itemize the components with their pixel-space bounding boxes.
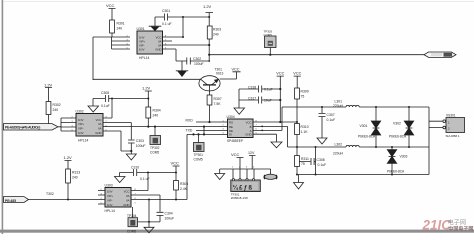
wire U301 right pins: [163, 37, 210, 49]
wire U304 VCC row: [253, 121, 297, 123]
wire top output run: [209, 54, 424, 56]
svg-text:240: 240: [117, 27, 123, 31]
svg-text:2.4K: 2.4K: [180, 187, 188, 191]
TVS diode V302: [389, 106, 414, 148]
op-amp U303: [105, 184, 132, 214]
svg-text:240: 240: [153, 114, 159, 118]
svg-text:1.2V: 1.2V: [142, 86, 151, 91]
svg-text:75: 75: [301, 162, 305, 166]
wire TXD to U304: [196, 130, 227, 132]
svg-text:VCC: VCC: [106, 3, 115, 8]
svg-text:P6KE6-8CA: P6KE6-8CA: [358, 135, 376, 139]
svg-text:TXD: TXD: [186, 129, 193, 133]
connector XS301: [443, 114, 465, 139]
svg-text:VCC: VCC: [276, 72, 284, 76]
svg-text:HPL14: HPL14: [78, 139, 88, 143]
svg-text:VA: VA: [126, 198, 130, 202]
svg-text:COM5: COM5: [127, 230, 136, 234]
svg-text:RXD: RXD: [186, 119, 194, 123]
svg-text:U302: U302: [76, 110, 84, 114]
svg-text:VA: VA: [126, 194, 130, 198]
svg-text:4: 4: [253, 167, 255, 169]
resistor R313: [66, 169, 81, 201]
svg-text:SIA,DB8.1: SIA,DB8.1: [446, 134, 460, 138]
svg-text:C310: C310: [131, 166, 139, 170]
svg-text:7.5K: 7.5K: [214, 102, 222, 106]
power 12V module: [248, 151, 256, 169]
capacitor C302: [187, 57, 210, 66]
capacitor C305 decoupling: [93, 91, 148, 108]
TVS diode V303: [387, 146, 408, 176]
svg-text:100uF: 100uF: [165, 217, 175, 221]
svg-text:R309: R309: [301, 90, 309, 94]
wire to connector XS301: [429, 107, 443, 175]
svg-text:1.2V: 1.2V: [64, 155, 73, 160]
resistor R303: [207, 16, 221, 61]
svg-text:T302: T302: [46, 192, 54, 196]
svg-text:C302: C302: [193, 57, 201, 61]
svg-text:COM5: COM5: [150, 151, 159, 155]
svg-text:10uF: 10uF: [264, 98, 272, 102]
capacitor C308: [299, 158, 326, 167]
svg-text:12V: 12V: [248, 151, 255, 155]
filter module TF301: [231, 179, 260, 200]
ground arrow C303: [126, 154, 136, 160]
svg-text:240: 240: [213, 33, 219, 37]
transistor T301: [199, 68, 237, 96]
power VCC bottom: [171, 161, 180, 174]
svg-text:P6KE6-8CA: P6KE6-8CA: [389, 135, 407, 139]
svg-text:100uF: 100uF: [194, 62, 204, 66]
svg-text:1NV: 1NV: [139, 48, 145, 52]
ferrite bead E301: [264, 174, 276, 179]
capacitor C307 on line A: [319, 106, 336, 138]
svg-text:L302: L302: [335, 143, 343, 147]
svg-text:2KB618-1/W: 2KB618-1/W: [231, 196, 248, 200]
svg-text:XS301: XS301: [446, 114, 456, 118]
wire U304 A row: [253, 107, 282, 130]
svg-text:VCC: VCC: [124, 189, 130, 193]
svg-text:TP301: TP301: [194, 153, 204, 157]
svg-text:240: 240: [72, 176, 78, 180]
svg-text:VCC: VCC: [171, 161, 180, 166]
svg-text:75: 75: [301, 95, 305, 99]
wire VA row to C304: [131, 195, 160, 212]
svg-text:U303: U303: [105, 184, 113, 188]
bottom rail wire: [297, 174, 429, 176]
wire RXD to U304: [196, 121, 227, 123]
svg-text:220uH: 220uH: [333, 152, 344, 156]
wire U304 B row: [253, 126, 288, 147]
svg-text:R302: R302: [53, 103, 61, 107]
svg-text:VCC: VCC: [293, 72, 301, 76]
border bottom grey bar: [0, 230, 474, 233]
capacitor C303: [128, 139, 145, 151]
svg-text:0.1uF: 0.1uF: [327, 118, 336, 122]
resistor R311: [295, 156, 309, 176]
svg-text:V301: V301: [360, 124, 368, 128]
wire module to bead: [254, 169, 271, 174]
svg-text:C308: C308: [317, 158, 325, 162]
svg-text:C307: C307: [327, 113, 335, 117]
port RXD out (top right): [424, 52, 456, 57]
wire U302 left pin bus: [58, 118, 76, 131]
wire U302 GND to C303 foot: [103, 131, 131, 154]
svg-text:R305: R305: [180, 182, 188, 186]
svg-text:3: 3: [246, 167, 248, 169]
ground arrow C307: [317, 138, 327, 144]
wire ground run bottom: [137, 200, 160, 222]
wire U301 left pin bus: [112, 37, 130, 49]
wire feedback loop to transistor base: [93, 37, 201, 80]
svg-text:0.1uF: 0.1uF: [101, 104, 110, 108]
resistor R310: [295, 124, 309, 156]
testpoint TP303: [264, 30, 277, 56]
pin number ticks: [72, 35, 258, 204]
svg-text:VIP-: VIP-: [107, 198, 113, 202]
svg-text:.中国电子网: .中国电子网: [447, 226, 473, 233]
testpoint TP301: [194, 133, 205, 161]
svg-text:1.1K: 1.1K: [301, 130, 309, 134]
capacitor C310 decoupling: [120, 166, 177, 182]
wire module top rail: [220, 169, 254, 180]
ground arrow C305: [88, 106, 99, 112]
svg-text:P6KE6-8CA: P6KE6-8CA: [387, 170, 405, 174]
testpoint TP304: [127, 207, 138, 234]
power 1.2V top: [203, 4, 213, 17]
svg-text:COM5: COM5: [194, 158, 203, 162]
svg-text:R313: R313: [72, 171, 80, 175]
border top faint line: [3, 0, 474, 3]
svg-text:1.2V: 1.2V: [203, 4, 212, 9]
inductor L302: [288, 143, 430, 156]
svg-text:0.1uF: 0.1uF: [318, 163, 327, 167]
capacitor C318: [239, 85, 280, 92]
resistor R309: [295, 88, 309, 124]
ground arrow (filled) near C302: [176, 70, 188, 72]
svg-text:R311: R311: [301, 157, 309, 161]
svg-text:0.1uF: 0.1uF: [264, 87, 273, 91]
svg-text:L301: L301: [335, 100, 343, 104]
capacitor C301: [155, 9, 209, 26]
svg-text:U304: U304: [227, 115, 235, 119]
svg-text:U301: U301: [137, 27, 145, 31]
resistor R302: [46, 102, 61, 125]
TVS diode V301: [358, 106, 381, 148]
svg-text:GND: GND: [245, 133, 251, 137]
svg-text:R303: R303: [213, 28, 221, 32]
wire DI run and drop to bottom: [187, 134, 227, 199]
svg-text:C304: C304: [165, 212, 173, 216]
svg-text:C303: C303: [136, 139, 144, 143]
resistor R307: [207, 95, 222, 123]
svg-text:VCC: VCC: [231, 152, 240, 157]
svg-text:R310: R310: [301, 125, 309, 129]
capacitor C317: [239, 96, 280, 103]
svg-text:1: 1: [232, 167, 234, 169]
svg-text:HPL14: HPL14: [105, 209, 115, 213]
op-amp U302: [76, 110, 104, 143]
power VCC module: [231, 152, 244, 169]
svg-text:9013: 9013: [216, 72, 224, 76]
power 1.2V mid-left: [44, 83, 53, 102]
power VCC at T301: [232, 68, 241, 80]
svg-text:C301: C301: [162, 9, 170, 13]
svg-text:DI: DI: [229, 133, 232, 137]
port bottom input: [4, 197, 29, 203]
watermark 21IC: [422, 218, 474, 233]
power VCC above R309: [293, 72, 301, 88]
svg-text:TP302: TP302: [150, 146, 160, 150]
svg-text:C305: C305: [101, 91, 109, 95]
ground arrow C310: [115, 177, 126, 183]
svg-text:HPL14: HPL14: [139, 56, 149, 60]
svg-text:R304: R304: [153, 109, 161, 113]
svg-text:PE•485: PE•485: [5, 199, 16, 203]
resistor R305: [174, 173, 189, 201]
svg-text:R301: R301: [117, 22, 125, 26]
svg-text:V302: V302: [393, 122, 401, 126]
wire U303 out run: [131, 199, 187, 201]
svg-text:0.1 uF: 0.1 uF: [162, 22, 172, 26]
port PE-AUDIO input: [4, 124, 59, 130]
wire U304 GND row: [253, 134, 277, 142]
wire U302 VA to C303: [103, 123, 131, 140]
testpoint TP302: [150, 127, 161, 155]
svg-text:GND: GND: [155, 48, 161, 52]
resistor R304: [146, 99, 161, 127]
wire U303 left stubs: [98, 191, 105, 205]
svg-text:1.2V: 1.2V: [44, 83, 53, 88]
border left grey strip: [2, 0, 4, 234]
ground arrow module left: [215, 169, 225, 180]
wire to U303 VCC pin: [131, 173, 148, 191]
svg-text:VIP+: VIP+: [107, 194, 114, 198]
resistor R301: [110, 20, 125, 37]
svg-text:R307: R307: [214, 97, 222, 101]
ground arrow caps C318/C317: [234, 89, 245, 114]
svg-text:5: 5: [135, 202, 137, 204]
power 1.2V bottom-left: [64, 155, 73, 169]
svg-text:PE-AUDIO(+)•PE-AUDIO(-): PE-AUDIO(+)•PE-AUDIO(-): [5, 126, 40, 130]
svg-text:100uF: 100uF: [136, 144, 146, 148]
capacitor C304: [157, 212, 175, 222]
op-amp U301: [137, 27, 163, 60]
ground arrow bottom: [144, 222, 154, 233]
svg-text:1NV: 1NV: [107, 189, 113, 193]
wire bottom input run: [29, 199, 106, 201]
wire to U302 VCC pin: [103, 99, 112, 119]
svg-text:240: 240: [53, 108, 59, 112]
power VCC above U304: [276, 72, 284, 123]
wire RE-DE tie: [203, 127, 205, 135]
ground arrow U304: [271, 142, 282, 148]
svg-text:GND: GND: [95, 131, 101, 135]
wire long RE run: [103, 126, 227, 128]
svg-text:VCC: VCC: [232, 68, 240, 72]
ground arrow rail: [294, 175, 304, 190]
transceiver U304: [227, 115, 254, 143]
svg-text:SP485EEP: SP485EEP: [227, 139, 243, 143]
ground arrow C301: [149, 17, 162, 26]
svg-text:1NV: 1NV: [78, 131, 84, 135]
svg-text:GND: GND: [123, 203, 129, 207]
svg-text:2: 2: [239, 167, 241, 169]
power 1.2V mid: [142, 86, 152, 100]
wire C301 to U301 VCC pin: [182, 17, 184, 37]
wire C308 shunt column: [315, 147, 317, 175]
svg-text:V303: V303: [400, 155, 408, 159]
svg-text:VCC: VCC: [246, 120, 252, 124]
inductor L301: [282, 100, 429, 109]
power VCC top: [106, 3, 116, 20]
svg-text:¼£ƒß: ¼£ƒß: [233, 184, 254, 191]
svg-text:电子网: 电子网: [448, 219, 467, 227]
wire U301 GND drop: [176, 49, 187, 71]
svg-text:1NV: 1NV: [107, 203, 113, 207]
